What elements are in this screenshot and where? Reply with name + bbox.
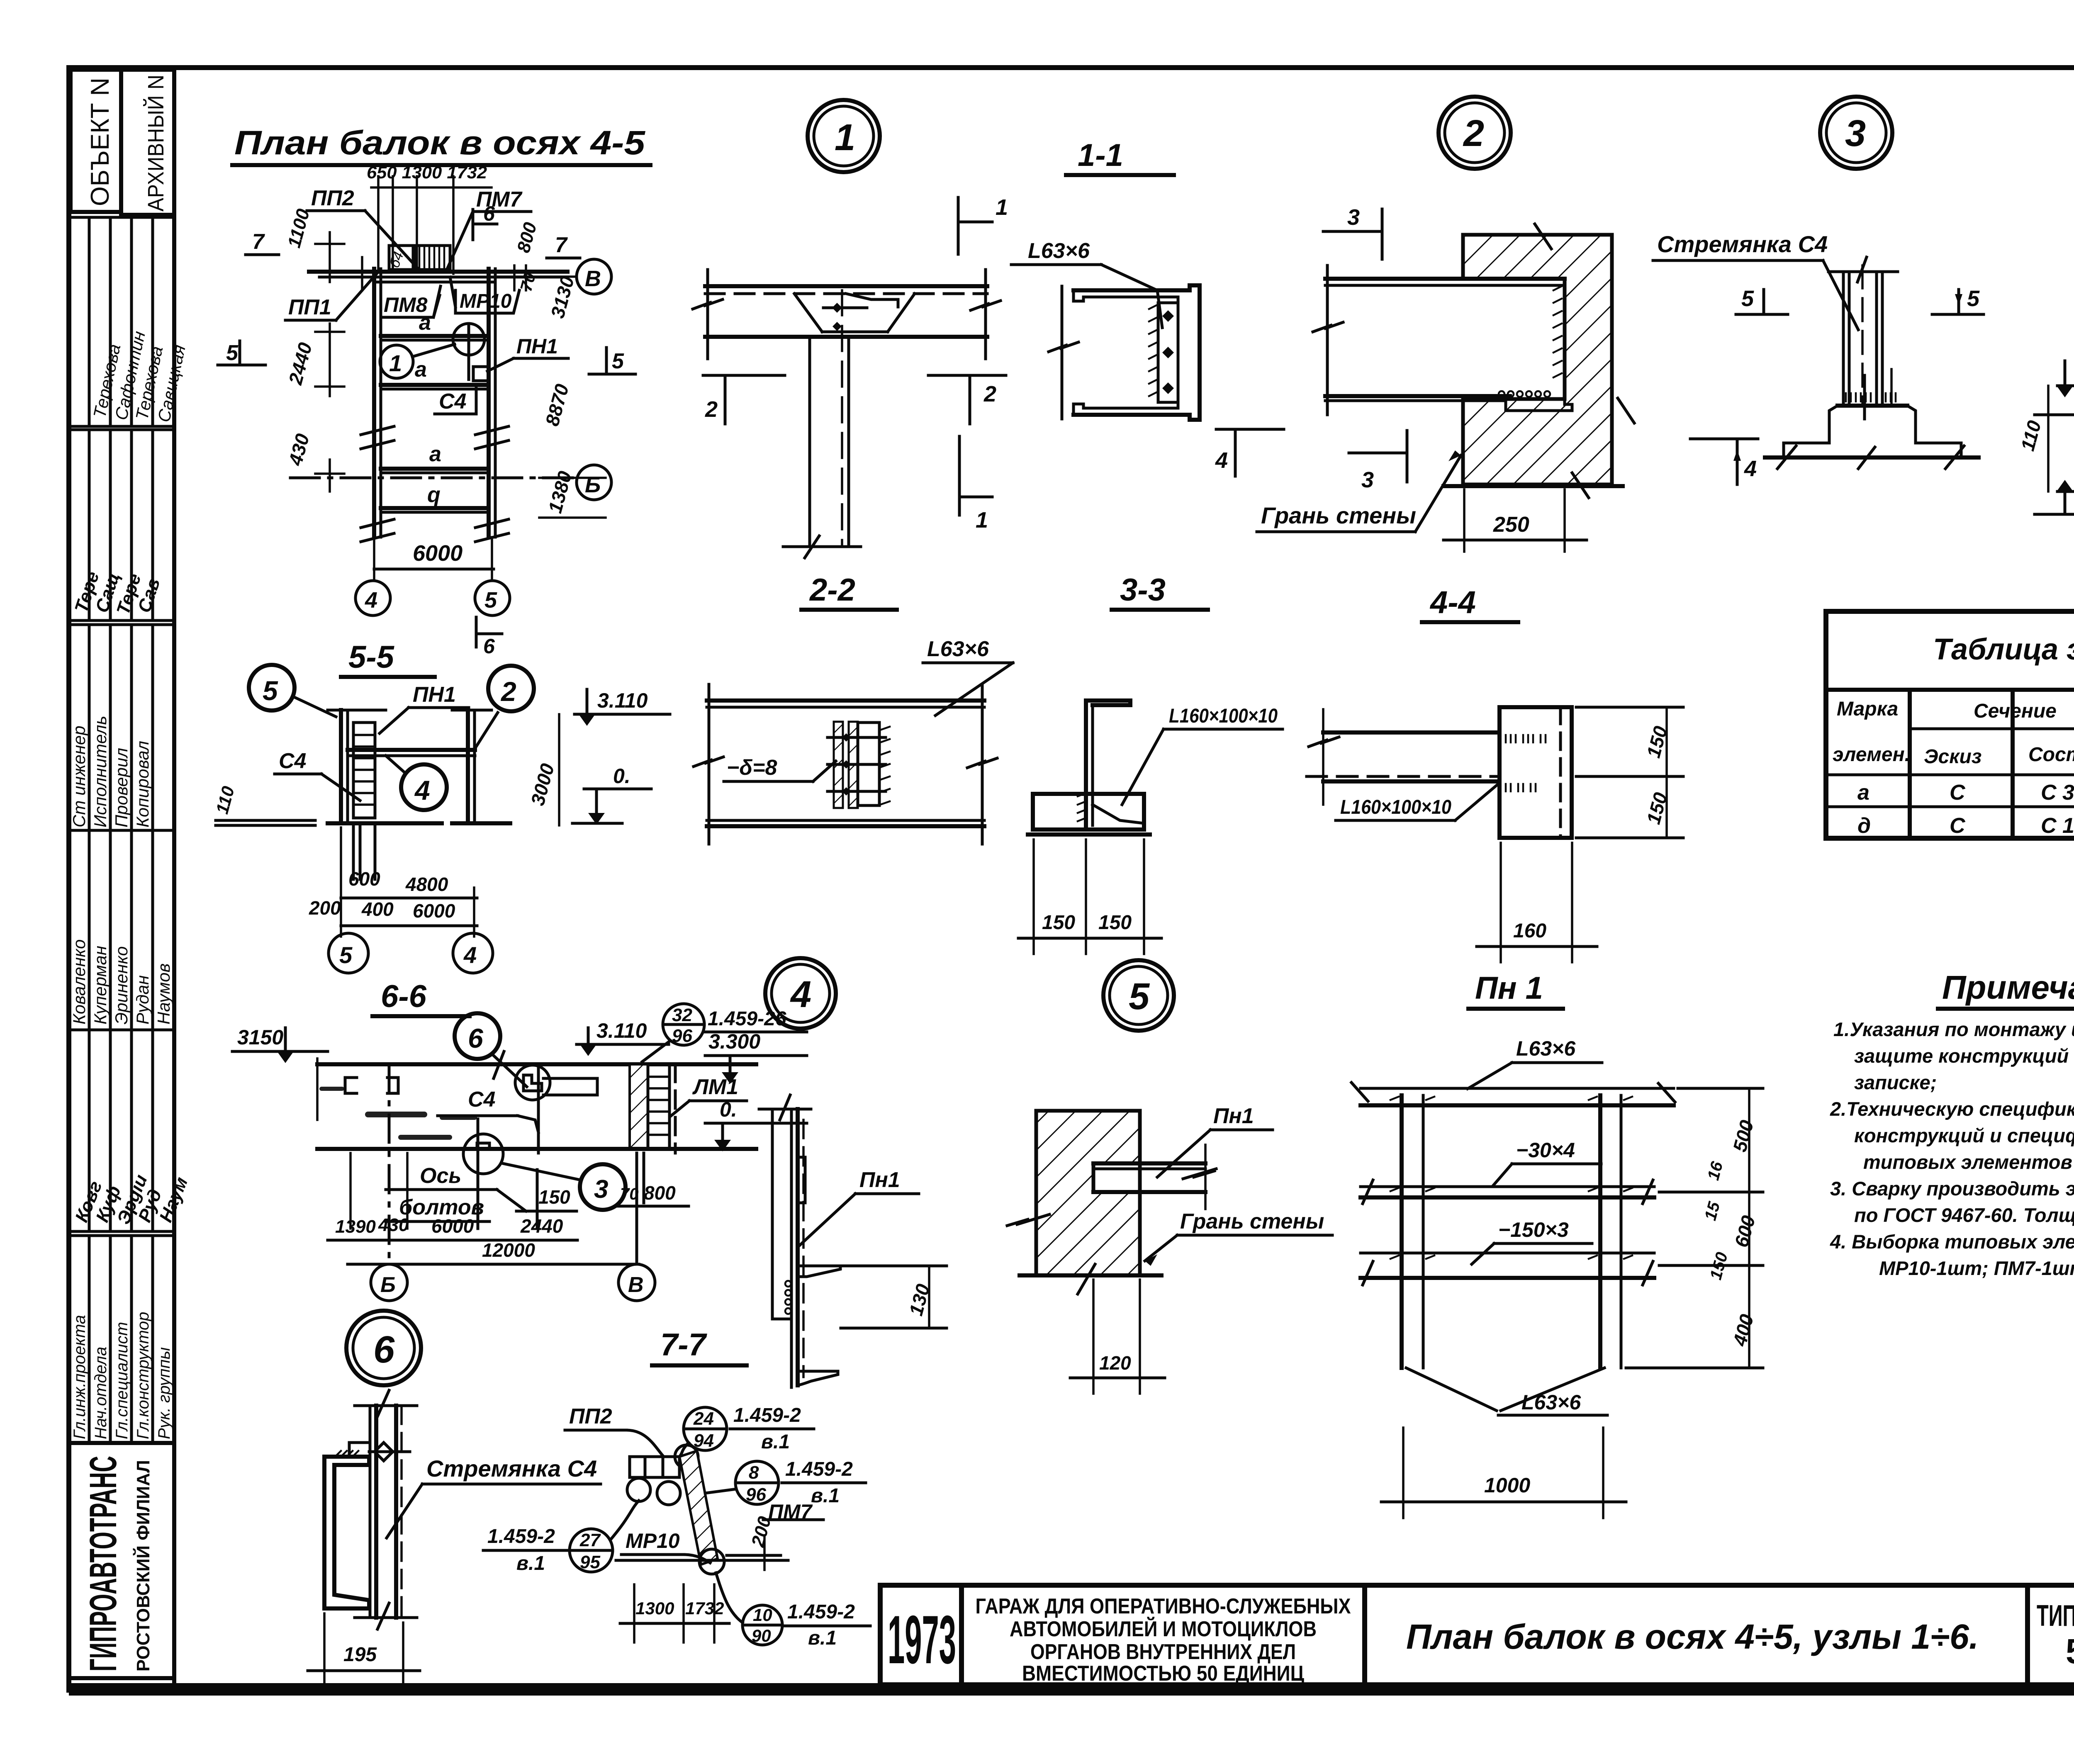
- T detail below with circle: [463, 1134, 503, 1174]
- svg-text:6000: 6000: [413, 541, 463, 566]
- weld ticks: [1149, 305, 1157, 396]
- svg-text:а: а: [429, 442, 441, 466]
- svg-text:В: В: [628, 1273, 644, 1297]
- svg-text:С 30: С 30: [2041, 781, 2074, 805]
- column shafts: [1842, 272, 1845, 406]
- dims 1300 1732: [633, 1584, 635, 1642]
- support angle at beam end: [1506, 401, 1572, 411]
- svg-text:в.1: в.1: [808, 1627, 837, 1649]
- svg-text:1732: 1732: [685, 1599, 724, 1618]
- svg-text:195: 195: [343, 1644, 377, 1666]
- svg-text:Копировал: Копировал: [133, 741, 152, 827]
- channel web vertical: [1084, 701, 1088, 830]
- svg-text:1: 1: [389, 350, 402, 376]
- middle flange: [798, 1266, 840, 1277]
- svg-text:5-5: 5-5: [348, 640, 395, 675]
- svg-text:3-3: 3-3: [1120, 572, 1166, 608]
- vertical axis lines below beam: [349, 1153, 352, 1229]
- axis circle 5: [475, 581, 510, 616]
- rail at right of rod: [543, 1078, 597, 1095]
- beam across: [348, 748, 475, 752]
- C channel big: [324, 1457, 369, 1608]
- svg-text:ГИПРОАВТОТРАНС: ГИПРОАВТОТРАНС: [82, 1456, 124, 1672]
- circle 8/96: [735, 1461, 779, 1504]
- bolt circle detail: [515, 1065, 550, 1100]
- svg-text:4: 4: [414, 775, 430, 805]
- svg-text:Куперман: Куперман: [90, 946, 110, 1024]
- weld ticks right of gusset: [880, 727, 890, 805]
- signatures block 1: [69, 426, 174, 620]
- axis circle 4: [355, 581, 390, 616]
- svg-text:Сечение: Сечение: [1974, 700, 2057, 722]
- weld marks inside plate top: [1506, 735, 1546, 791]
- svg-text:6000: 6000: [431, 1215, 474, 1237]
- svg-text:Проверил: Проверил: [112, 748, 131, 827]
- small plate at beam end: [473, 367, 488, 381]
- svg-text:ГАРАЖ ДЛЯ ОПЕРАТИВНО-СЛУЖЕБНЫХ: ГАРАЖ ДЛЯ ОПЕРАТИВНО-СЛУЖЕБНЫХ: [976, 1594, 1351, 1618]
- node circle 5 leader: [249, 665, 295, 710]
- top lip: [1086, 701, 1130, 705]
- stair flight with rungs: [414, 246, 450, 270]
- top rail: [1361, 1087, 1674, 1090]
- svg-text:Стремянка С4: Стремянка С4: [1657, 231, 1828, 257]
- right post: [1598, 1095, 1602, 1368]
- svg-text:7: 7: [252, 230, 265, 254]
- wall hatched: [1463, 235, 1612, 484]
- beam: [1325, 277, 1565, 281]
- small lug upper: [798, 1157, 805, 1203]
- svg-text:Рудан: Рудан: [133, 975, 152, 1024]
- svg-text:2: 2: [983, 382, 996, 406]
- svg-text:4800: 4800: [405, 873, 448, 895]
- horizontal line under bolt: [616, 1559, 788, 1562]
- roles block 2: [69, 1231, 174, 1443]
- svg-text:Грань стены: Грань стены: [1261, 502, 1416, 528]
- bottom break: [355, 1616, 417, 1619]
- wall break marks: [1535, 224, 1551, 249]
- node circle 3 with leader: [580, 1164, 626, 1210]
- svg-text:ТИПОВОЙ ПРОЕКТ: ТИПОВОЙ ПРОЕКТ: [2037, 1599, 2074, 1633]
- svg-text:Исполнитель: Исполнитель: [90, 716, 110, 827]
- weld ticks at posts/rails: [1390, 1097, 1632, 1259]
- svg-text:С: С: [1950, 781, 1966, 805]
- top ticks above left post: [328, 709, 386, 712]
- svg-text:В: В: [585, 266, 601, 291]
- svg-text:150: 150: [1042, 912, 1075, 934]
- svg-text:400: 400: [361, 898, 394, 920]
- svg-text:3150: 3150: [237, 1026, 283, 1049]
- svg-text:АРХИВНЫЙ N: АРХИВНЫЙ N: [143, 75, 168, 212]
- svg-text:Гл.инж.проекта: Гл.инж.проекта: [71, 1315, 89, 1439]
- left break mark: [1061, 286, 1064, 419]
- lower extension of ladder: [352, 823, 355, 879]
- circle 32/96 with leader: [663, 1004, 704, 1045]
- svg-text:3: 3: [1347, 205, 1360, 230]
- svg-text:Состав: Состав: [2028, 744, 2074, 766]
- right dim chain: [1748, 1088, 1750, 1368]
- svg-text:1: 1: [996, 195, 1008, 220]
- circle 24/94: [684, 1407, 727, 1450]
- bottom bolt circle: [699, 1549, 724, 1574]
- splice plates hatched: [834, 722, 843, 808]
- svg-text:2: 2: [705, 397, 718, 422]
- svg-text:5: 5: [484, 588, 497, 613]
- svg-text:Гл.конструктор: Гл.конструктор: [134, 1312, 152, 1439]
- data rows: [1826, 774, 2074, 776]
- svg-text:3: 3: [1845, 113, 1866, 154]
- bolted angle inside: [1158, 303, 1178, 402]
- section flag 1 bottom: [958, 436, 961, 515]
- svg-text:2: 2: [1463, 113, 1484, 154]
- dim 1000 bottom: [1402, 1428, 1405, 1518]
- node circle 6 with leader: [455, 1013, 500, 1059]
- svg-text:С 16: С 16: [2041, 814, 2074, 838]
- column lines: [1910, 690, 2074, 838]
- beam Pn1: [1093, 1161, 1205, 1165]
- weld ticks on web: [1078, 793, 1086, 821]
- svg-text:Рук. группы: Рук. группы: [155, 1347, 173, 1439]
- svg-text:6: 6: [483, 202, 495, 225]
- svg-text:5: 5: [226, 341, 239, 365]
- gusset plate: [858, 723, 879, 805]
- svg-text:94: 94: [694, 1431, 714, 1451]
- svg-text:3.300: 3.300: [708, 1030, 760, 1053]
- svg-text:АВТОМОБИЛЕЙ И МОТОЦИКЛОВ: АВТОМОБИЛЕЙ И МОТОЦИКЛОВ: [1010, 1617, 1317, 1641]
- svg-text:защите конструкций см. в поясн: защите конструкций см. в пояснительной: [1854, 1045, 2074, 1067]
- section flag 6 bottom: [475, 617, 478, 647]
- svg-text:План балок в осях 4÷5, узлы 1÷: План балок в осях 4÷5, узлы 1÷6.: [1406, 1617, 1979, 1656]
- bolt rows: [828, 737, 886, 791]
- section flag 4 left bottom: [1690, 438, 1758, 440]
- hatched wall: [1036, 1111, 1140, 1275]
- header texts: [1833, 696, 2074, 776]
- break arrows: [1007, 1214, 1049, 1226]
- svg-text:1: 1: [976, 508, 988, 533]
- svg-text:4. Выборка типовых элементов н: 4. Выборка типовых элементов на лестницу…: [1830, 1231, 2074, 1253]
- svg-text:1.459-2: 1.459-2: [487, 1526, 555, 1547]
- svg-text:150: 150: [538, 1186, 570, 1208]
- svg-text:6: 6: [468, 1023, 484, 1054]
- svg-text:по ГОСТ 9467-60. Толщина шва 6: по ГОСТ 9467-60. Толщина шва 6мм;: [1854, 1204, 2074, 1226]
- section flag 2 left: [703, 374, 785, 377]
- svg-text:ПП2: ПП2: [311, 186, 354, 210]
- svg-text:План балок в осях 4-5: План балок в осях 4-5: [234, 124, 646, 162]
- svg-text:6: 6: [483, 635, 495, 658]
- top beam axis V: [309, 270, 567, 274]
- svg-text:Пн1: Пн1: [859, 1168, 900, 1192]
- base plate: [1033, 794, 1144, 830]
- svg-text:Пн 1: Пн 1: [1475, 971, 1543, 1006]
- third rail (wide): [1361, 1252, 1654, 1255]
- left stamp column: [69, 68, 192, 1683]
- top beam line: [317, 1062, 756, 1066]
- bottom title block: [880, 1585, 2074, 1686]
- hanging rod: [537, 1064, 540, 1153]
- beam bottom flange: [707, 824, 984, 828]
- ground line: [783, 545, 861, 548]
- svg-text:С4: С4: [439, 389, 467, 414]
- svg-text:12000: 12000: [482, 1239, 535, 1261]
- column axis 4: [372, 269, 376, 537]
- end plate: [1500, 707, 1572, 838]
- stair landing box: [389, 246, 413, 270]
- svg-text:в.1: в.1: [516, 1552, 545, 1574]
- svg-text:Наумов: Наумов: [154, 964, 173, 1024]
- section flag 6 top: [472, 209, 475, 240]
- vertical channel web: [771, 1109, 774, 1319]
- svg-text:1390: 1390: [335, 1217, 376, 1237]
- svg-text:7: 7: [555, 233, 568, 257]
- svg-text:2-2: 2-2: [809, 572, 855, 608]
- svg-text:Гл.специалист: Гл.специалист: [113, 1322, 131, 1439]
- svg-text:1.459-2: 1.459-2: [785, 1458, 853, 1480]
- svg-text:4: 4: [365, 588, 377, 613]
- bottom angle: [1093, 805, 1144, 823]
- dim 250: [1463, 489, 1465, 552]
- svg-text:Стремянка С4: Стремянка С4: [426, 1455, 597, 1482]
- svg-text:95: 95: [580, 1552, 600, 1572]
- svg-text:96: 96: [672, 1026, 692, 1046]
- svg-text:типовых элементов см на листе: типовых элементов см на листе КС-2;: [1863, 1151, 2074, 1173]
- svg-text:ЛМ1: ЛМ1: [692, 1075, 738, 1099]
- names row block 1: [69, 217, 174, 426]
- bottom flange hook: [798, 1371, 838, 1385]
- base plate: [1838, 404, 1907, 408]
- beam lines: [1323, 730, 1500, 735]
- project name: [976, 1594, 1351, 1686]
- svg-text:L160×100×10: L160×100×10: [1340, 796, 1451, 818]
- signatures block 2: [69, 1030, 174, 1231]
- node circle 2 leader: [488, 666, 534, 711]
- dims 150 150: [1034, 839, 1144, 954]
- svg-text:5: 5: [1741, 286, 1754, 311]
- svg-text:а: а: [419, 311, 431, 335]
- svg-text:4: 4: [1215, 448, 1228, 473]
- svg-text:4-4: 4-4: [1429, 585, 1476, 620]
- svg-text:5: 5: [339, 942, 353, 968]
- ground line: [1444, 484, 1623, 488]
- dim 120: [1092, 1280, 1095, 1394]
- diagonal stringer hatched: [679, 1451, 718, 1564]
- svg-text:2: 2: [500, 676, 516, 707]
- bottom beam line: [317, 1147, 756, 1151]
- svg-text:Примечания:: Примечания:: [1942, 969, 2074, 1006]
- section flag 2 right: [928, 374, 1006, 377]
- node circle 1 with leader: [380, 345, 413, 378]
- svg-text:1973: 1973: [888, 1601, 956, 1678]
- stamp box ARHIVNYJ N: [121, 70, 174, 215]
- svg-text:4: 4: [463, 942, 477, 968]
- names row block 2: [69, 830, 174, 1030]
- leader to circle 10/90: [716, 1573, 742, 1623]
- svg-text:1.459-2: 1.459-2: [733, 1404, 801, 1426]
- node circle 4 leader: [401, 764, 447, 810]
- svg-text:Эскиз: Эскиз: [1924, 746, 1981, 768]
- svg-text:120: 120: [1099, 1352, 1131, 1374]
- svg-text:в.1: в.1: [761, 1431, 790, 1453]
- svg-text:3.110: 3.110: [597, 689, 648, 712]
- step bar: [630, 1457, 679, 1477]
- svg-text:Ст инженер: Ст инженер: [69, 725, 89, 827]
- svg-text:6-6: 6-6: [381, 979, 427, 1014]
- svg-text:150: 150: [1098, 912, 1132, 934]
- svg-text:3.110: 3.110: [596, 1019, 647, 1042]
- svg-text:а: а: [1857, 781, 1870, 805]
- svg-text:Коваленко: Коваленко: [69, 939, 89, 1024]
- right post: [466, 710, 470, 823]
- svg-text:1.459-26: 1.459-26: [708, 1008, 786, 1030]
- svg-text:7-7: 7-7: [660, 1327, 708, 1363]
- left break: [708, 684, 711, 844]
- small channel marks on beam: [345, 1078, 357, 1093]
- svg-text:ПП2: ПП2: [569, 1404, 612, 1428]
- gusset: [794, 294, 822, 332]
- svg-text:а: а: [415, 358, 427, 382]
- svg-text:5: 5: [612, 349, 624, 373]
- svg-text:2.Техническую спецификацию ста: 2.Техническую спецификацию стали; матери…: [1830, 1098, 2074, 1120]
- svg-text:ПН1: ПН1: [413, 683, 456, 707]
- right break: [984, 270, 987, 359]
- svg-text:Б: Б: [380, 1273, 396, 1297]
- svg-text:ВМЕСТИМОСТЬЮ 50 ЕДИНИЦ: ВМЕСТИМОСТЬЮ 50 ЕДИНИЦ: [1022, 1662, 1304, 1686]
- svg-text:Марка: Марка: [1837, 698, 1898, 720]
- svg-text:Ось: Ось: [420, 1164, 461, 1188]
- beam bottom flange: [705, 335, 987, 339]
- svg-text:МР10: МР10: [460, 290, 512, 312]
- axis circles 5 and 4 below: [329, 933, 368, 973]
- bolt circles: [627, 1478, 650, 1501]
- svg-text:Нач.отдела: Нач.отдела: [92, 1347, 110, 1439]
- middle rail: [1361, 1185, 1654, 1188]
- svg-text:5: 5: [1129, 976, 1150, 1017]
- svg-text:ОБЪЕКТ N: ОБЪЕКТ N: [86, 78, 114, 206]
- section flag 1 top: [957, 197, 960, 254]
- top break: [355, 1404, 417, 1407]
- svg-text:3: 3: [1361, 467, 1374, 492]
- dim 130: [841, 1265, 947, 1268]
- ladder LM1 hatched: [630, 1064, 648, 1149]
- svg-text:160: 160: [1513, 920, 1546, 942]
- section flag 4 bottom right: [1216, 428, 1284, 431]
- svg-text:−150×3: −150×3: [1498, 1218, 1569, 1241]
- svg-text:Таблица элементов: Таблица элементов: [1933, 633, 2074, 666]
- svg-text:27: 27: [579, 1530, 601, 1550]
- roles block 1: [69, 620, 174, 830]
- svg-text:конструкций и спецификацию ста: конструкций и спецификацию стальных: [1854, 1124, 2074, 1146]
- svg-text:24: 24: [693, 1409, 714, 1429]
- svg-text:−30×4: −30×4: [1516, 1139, 1575, 1162]
- axis B dash-dot: [290, 477, 576, 479]
- svg-text:200: 200: [309, 897, 341, 919]
- svg-text:650 1300 1732: 650 1300 1732: [367, 163, 487, 182]
- axis circle V: [577, 259, 611, 294]
- svg-text:С: С: [1950, 814, 1966, 838]
- beam top flange: [707, 698, 984, 703]
- svg-text:q: q: [427, 483, 441, 507]
- column under beam: [808, 337, 811, 547]
- pedestal: [1829, 406, 1916, 443]
- left break: [706, 270, 709, 359]
- svg-text:ПН1: ПН1: [516, 335, 558, 358]
- ground line: [1020, 1273, 1161, 1277]
- lower break marks: [361, 519, 509, 542]
- svg-text:МР10-1шт; ПМ7-1шт, ПМ8-1шт, ПП: МР10-1шт; ПМ7-1шт, ПМ8-1шт, ПП1-1шт, ПП2…: [1879, 1257, 2074, 1279]
- ground line: [328, 821, 442, 825]
- svg-text:10: 10: [753, 1605, 772, 1625]
- svg-text:L63×6: L63×6: [1028, 239, 1090, 263]
- svg-text:С4: С4: [279, 749, 307, 773]
- stamp box OBJEKT N: [71, 70, 121, 212]
- svg-text:5: 5: [1967, 286, 1980, 311]
- bottom of outer plate: [772, 1318, 791, 1321]
- dim 160 bottom: [1501, 843, 1572, 962]
- svg-text:L63×6: L63×6: [1521, 1391, 1581, 1414]
- left post: [1400, 1095, 1404, 1368]
- svg-text:ПП1: ПП1: [288, 295, 331, 319]
- svg-text:6: 6: [373, 1328, 395, 1371]
- svg-text:1.459-2: 1.459-2: [787, 1601, 855, 1623]
- svg-text:0.: 0.: [720, 1098, 737, 1121]
- GIPROAVTOTRANS box: [69, 1443, 174, 1678]
- axis circles B and V: [371, 1264, 407, 1301]
- svg-text:503-209: 503-209: [2066, 1632, 2074, 1671]
- beam top flange: [705, 284, 987, 288]
- svg-text:1.Указания по монтажу и антико: 1.Указания по монтажу и антикоррозийной: [1833, 1018, 2074, 1040]
- svg-text:0.: 0.: [613, 764, 630, 788]
- svg-text:L160×100×10: L160×100×10: [1169, 705, 1278, 727]
- section flag 3 bottom: [1349, 452, 1407, 455]
- right break: [981, 684, 984, 844]
- small angle top: [349, 1443, 369, 1457]
- svg-text:4: 4: [790, 974, 811, 1015]
- svg-text:1: 1: [835, 117, 855, 158]
- svg-text:1000: 1000: [1484, 1474, 1530, 1497]
- left break: [1326, 265, 1329, 415]
- svg-text:8: 8: [749, 1462, 759, 1483]
- beam end welds: [1553, 286, 1562, 377]
- svg-text:элемен.: элемен.: [1833, 744, 1910, 766]
- svg-text:1-1: 1-1: [1078, 138, 1123, 173]
- svg-text:в.1: в.1: [811, 1485, 840, 1507]
- top break: [759, 1108, 811, 1111]
- top tick: [1828, 270, 1898, 273]
- anchor weld ticks: [1846, 393, 1896, 401]
- svg-text:Б: Б: [585, 472, 601, 497]
- dims right 150 150: [1576, 706, 1683, 709]
- svg-text:3: 3: [594, 1175, 608, 1204]
- weld dots below flange: [785, 1281, 791, 1314]
- left post with ladder: [339, 710, 343, 823]
- column break marks: [361, 426, 509, 449]
- dim 195: [323, 1613, 326, 1685]
- svg-text:ОРГАНОВ ВНУТРЕННИХ ДЕЛ: ОРГАНОВ ВНУТРЕННИХ ДЕЛ: [1030, 1640, 1296, 1664]
- svg-text:70: 70: [620, 1185, 639, 1203]
- svg-text:д: д: [1857, 814, 1871, 838]
- svg-text:4: 4: [1744, 456, 1757, 481]
- svg-text:L63×6: L63×6: [1516, 1037, 1576, 1060]
- beam smudges: [319, 1087, 477, 1140]
- section flag 3 top: [1323, 230, 1382, 233]
- svg-text:32: 32: [672, 1005, 692, 1025]
- svg-text:5: 5: [263, 675, 278, 706]
- channel outline: [1074, 285, 1200, 420]
- svg-text:96: 96: [746, 1484, 766, 1505]
- bottom V with label: [1406, 1368, 1604, 1411]
- svg-text:С4: С4: [468, 1088, 496, 1112]
- break marks on rails: [1363, 1180, 1653, 1285]
- svg-text:3. Сварку производить электрод: 3. Сварку производить электродами типа Э…: [1830, 1178, 2074, 1200]
- svg-text:250: 250: [1493, 513, 1529, 537]
